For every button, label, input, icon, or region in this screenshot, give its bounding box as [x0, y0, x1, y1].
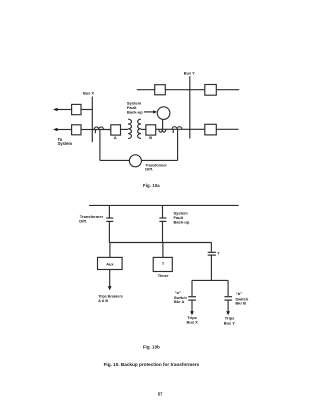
- arrow pointing to relay circle: [144, 111, 153, 113]
- transformer secondary winding: [138, 119, 141, 138]
- svg-text:T: T: [162, 261, 165, 266]
- contact a: [188, 297, 196, 300]
- wire rail to backup contact: [162, 205, 164, 217]
- caption Fig 10 Backup protection for transformers: [104, 362, 200, 367]
- svg-text:“b”: “b”: [236, 291, 242, 296]
- Aux relay box: [98, 257, 123, 269]
- wire down to contact b: [227, 280, 229, 296]
- svg-text:T: T: [217, 251, 220, 256]
- diff loop bottom wire right: [141, 159, 177, 161]
- breaker square feeder3 left: [155, 85, 166, 95]
- bus X: [91, 97, 93, 143]
- label Trips Breakers A and B: [98, 294, 123, 303]
- relay circle System Fault Back-up: [157, 107, 170, 120]
- svg-text:System: System: [58, 141, 73, 146]
- CT near bus X: [94, 127, 103, 133]
- logic bus wire: [109, 242, 211, 244]
- contact System Fault Back-up: [159, 218, 166, 221]
- svg-text:Aux: Aux: [106, 262, 114, 267]
- svg-text:Diff.: Diff.: [79, 219, 87, 224]
- breaker square feeder3 right: [205, 85, 217, 96]
- svg-text:Bus X: Bus X: [187, 320, 199, 325]
- svg-text:Back-up: Back-up: [127, 110, 143, 115]
- label Transformer Diff: [145, 163, 167, 172]
- label Timer: [158, 273, 169, 278]
- wire down to contact a: [191, 280, 193, 296]
- CT near bus Y: [172, 127, 182, 133]
- wire diff contact to logic bus: [108, 222, 110, 243]
- timer box T: [153, 257, 172, 271]
- label T contact: [217, 251, 220, 256]
- wire contact a to arrow: [191, 300, 193, 312]
- arrowhead trips breakers: [108, 286, 112, 290]
- wire logic bus down to T contact: [210, 243, 212, 252]
- svg-text:Bkr B: Bkr B: [235, 300, 246, 305]
- svg-text:57: 57: [158, 391, 163, 396]
- arrow to system feeder1: [53, 108, 58, 112]
- wire CT tap down to diff loop right: [177, 129, 179, 160]
- svg-text:Diff.: Diff.: [145, 167, 153, 172]
- svg-text:Fig. 10b: Fig. 10b: [143, 345, 160, 350]
- wire backup contact to logic bus: [162, 222, 164, 243]
- wire bus X to breaker A: [92, 129, 111, 131]
- contact T: [208, 252, 216, 255]
- wire B to bus Y: [156, 128, 190, 130]
- breaker square main right: [205, 124, 217, 135]
- diff loop bottom wire left: [100, 159, 129, 161]
- wire Aux box to arrow: [109, 270, 111, 287]
- label B: [149, 135, 152, 140]
- branch wire to a and b contacts: [192, 279, 228, 281]
- label Bus X: [83, 91, 94, 96]
- label Trips Bus X: [187, 315, 199, 325]
- wire T contact down: [210, 256, 212, 281]
- svg-text:Fig. 10. Backup protection fo: Fig. 10. Backup protection for transform…: [104, 362, 200, 367]
- contact b: [224, 297, 232, 300]
- label A: [114, 135, 117, 140]
- wire backup relay to line: [162, 119, 164, 129]
- label a switch Bkr A: [174, 290, 187, 304]
- breaker B: [146, 125, 156, 135]
- CT for backup relay: [159, 129, 166, 132]
- wire feeder1 left of breaker: [57, 109, 72, 111]
- wire contact b to arrow: [227, 300, 229, 312]
- svg-text:Bus Y: Bus Y: [184, 71, 195, 76]
- svg-text:Bkr A: Bkr A: [174, 299, 185, 304]
- wire feeder3 right segment: [216, 89, 239, 91]
- caption Fig 10a: [143, 183, 160, 188]
- wire feeder2 left of breaker: [57, 129, 72, 131]
- wire main line far right: [216, 128, 238, 130]
- wire logic bus to timer box: [162, 243, 164, 258]
- wire main line right of bus Y: [190, 128, 205, 130]
- arrowhead trips bus X: [190, 311, 194, 315]
- wire feeder1 right of breaker: [81, 109, 92, 111]
- wire logic bus to Aux box: [109, 243, 111, 258]
- wire rail to diff contact: [108, 205, 110, 217]
- arrowhead trips bus Y: [226, 311, 230, 315]
- svg-text:A & B: A & B: [98, 298, 108, 303]
- breaker A: [111, 125, 121, 135]
- label T in box: [162, 261, 165, 266]
- label System Fault Back-up: [127, 101, 143, 115]
- wire A to transformer: [121, 128, 129, 130]
- bus Y: [189, 76, 191, 138]
- relay circle Transformer Diff: [129, 155, 141, 167]
- svg-text:Timer: Timer: [158, 273, 169, 278]
- label b switch Bkr B: [235, 291, 248, 305]
- contact Transformer Diff: [106, 218, 113, 221]
- svg-text:Back-up: Back-up: [174, 219, 190, 224]
- svg-text:Fig. 10a: Fig. 10a: [143, 183, 160, 188]
- label Bus Y: [184, 71, 195, 76]
- label To System: [58, 137, 73, 146]
- caption Fig 10b: [143, 345, 160, 350]
- label Transformer Diff contact: [79, 214, 103, 223]
- breaker square feeder2: [72, 125, 81, 135]
- svg-text:A: A: [114, 135, 117, 140]
- wire feeder3 middle segment: [165, 89, 205, 91]
- wire CT tap down to diff loop: [99, 130, 101, 161]
- svg-text:Bus Y: Bus Y: [224, 320, 236, 325]
- transformer primary winding: [128, 119, 131, 138]
- label Aux: [106, 262, 114, 267]
- breaker square feeder1: [72, 104, 81, 114]
- svg-text:Bus X: Bus X: [83, 91, 94, 96]
- svg-text:B: B: [149, 135, 152, 140]
- arrow to system feeder2: [53, 128, 58, 132]
- wire transformer to breaker B: [141, 128, 146, 130]
- positive rail fig 10b: [89, 204, 239, 206]
- page number 57: [158, 391, 163, 396]
- label Trips Bus Y: [224, 316, 236, 326]
- arrowhead on relay pointer: [153, 110, 157, 113]
- label System Fault Back-up contact: [174, 211, 190, 225]
- wire feeder3 left segment: [137, 89, 155, 91]
- wire feeder2 right of breaker: [81, 129, 92, 131]
